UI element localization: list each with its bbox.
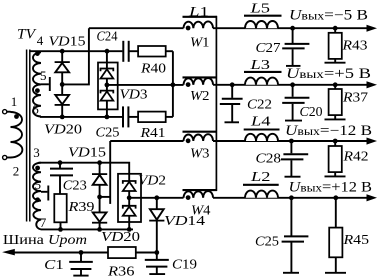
choke L1 core bar W3: [183, 131, 217, 133]
wire row3 rail: [213, 140, 368, 142]
diode VD15 lower: [92, 163, 107, 197]
capacitor C24: [123, 41, 128, 62]
primary winding coil: [11, 112, 23, 158]
tap 5B chassis bar: [47, 186, 49, 201]
node VD15b top: [97, 160, 102, 165]
node VD14 top: [154, 195, 159, 200]
node R37 top: [333, 82, 338, 87]
capacitor C25 filter: [282, 198, 309, 273]
svg-text:6: 6: [32, 102, 39, 117]
choke L1 core bar W2: [183, 76, 217, 78]
svg-text:L3: L3: [249, 58, 270, 73]
node VD15 top: [60, 49, 65, 54]
W4 polarity dot: [186, 195, 191, 200]
svg-text:Uвых=−5 В: Uвых=−5 В: [289, 7, 368, 23]
node C23 top: [58, 160, 63, 165]
resistor R40: [138, 46, 166, 57]
svg-text:C28: C28: [256, 152, 282, 167]
VD3 string wire bottom: [106, 101, 108, 117]
diode VD15: [55, 51, 70, 84]
svg-text:R45: R45: [342, 233, 369, 248]
node C28 top: [289, 139, 294, 144]
W2 polarity dot: [186, 82, 191, 87]
inductor L4 core bar: [244, 128, 280, 130]
svg-text:R43: R43: [341, 38, 367, 53]
wire W1 feed: [89, 27, 184, 29]
svg-text:VD2: VD2: [138, 174, 166, 189]
svg-text:R39: R39: [67, 200, 94, 215]
wire row4 rail: [213, 197, 368, 199]
arrow row2: [367, 81, 378, 88]
W1 polarity dot: [186, 26, 191, 31]
wire snubber vertical: [172, 51, 174, 117]
arrow row1: [367, 25, 378, 32]
svg-text:4: 4: [37, 33, 44, 48]
primary polarity dot: [14, 114, 19, 119]
svg-text:R40: R40: [140, 62, 166, 77]
capacitor C27: [282, 28, 309, 66]
wire midline B left: [100, 196, 111, 198]
VD2 zener lower: [123, 206, 136, 216]
svg-text:R41: R41: [139, 126, 165, 141]
svg-text:5: 5: [35, 177, 42, 192]
primary winding terminal 2: [3, 155, 7, 159]
svg-text:R42: R42: [342, 150, 368, 165]
capacitor C20: [282, 85, 309, 121]
node C19 top: [154, 250, 159, 255]
resistor R42: [325, 141, 346, 176]
arrow row4: [367, 194, 378, 201]
svg-text:R37: R37: [342, 91, 368, 106]
VD2 zener upper: [123, 181, 136, 191]
wire line3: [39, 163, 130, 181]
inductor L4 coil: [245, 134, 278, 141]
svg-text:C23: C23: [63, 179, 87, 194]
bus line: [13, 252, 108, 254]
secondary B polarity dot upper: [35, 166, 40, 171]
wire W3 riser: [109, 141, 111, 204]
svg-text:C24: C24: [97, 30, 118, 45]
node C22 top: [230, 82, 235, 87]
node R43 top: [333, 26, 338, 31]
svg-text:Uвых=+5 В: Uвых=+5 В: [286, 66, 371, 82]
svg-text:W3: W3: [190, 147, 210, 162]
node VD2 line7: [127, 227, 132, 232]
svg-text:W2: W2: [190, 89, 210, 104]
svg-text:R36: R36: [107, 264, 135, 278]
secondary B polarity dot lower: [35, 197, 40, 202]
node C20 top: [290, 82, 295, 87]
svg-text:2: 2: [13, 164, 20, 179]
wire terminal1: [7, 111, 11, 113]
tap 5B wire: [41, 191, 47, 193]
node C25 filter top: [289, 195, 294, 200]
svg-text:5: 5: [40, 68, 47, 83]
inductor L5 core bar: [244, 15, 282, 17]
svg-text:C22: C22: [247, 98, 272, 113]
diode VD14: [149, 198, 164, 253]
svg-text:Шина: Шина: [3, 233, 45, 248]
winding B bottom hook to line7: [36, 220, 41, 230]
svg-text:C20: C20: [300, 105, 323, 120]
svg-text:W1: W1: [190, 35, 210, 50]
diode VD20: [55, 84, 70, 117]
wire terminal2: [7, 157, 11, 159]
wire C24 to R40: [129, 50, 138, 52]
resistor R41: [138, 112, 166, 123]
svg-text:C19: C19: [172, 258, 197, 273]
choke L1 common core vertical: [215, 16, 217, 191]
node R39 line7: [58, 227, 63, 232]
svg-text:TV: TV: [17, 27, 37, 43]
VD2 string wire bottom: [128, 216, 130, 230]
wire row2 rail: [213, 84, 368, 86]
VD3 internal wire: [106, 79, 108, 91]
svg-text:1: 1: [11, 94, 18, 109]
node VD20 bottom: [60, 115, 65, 120]
svg-text:VD15: VD15: [49, 34, 86, 49]
wire line4: [30, 50, 123, 52]
tap 5A wire: [41, 83, 49, 85]
secondary A polarity dot lower: [35, 88, 40, 93]
wire line6: [40, 116, 122, 118]
VD3 zener upper: [101, 69, 114, 79]
capacitor C23: [50, 163, 73, 194]
resistor R43: [325, 28, 346, 63]
svg-text:VD3: VD3: [120, 88, 148, 103]
capacitor C1: [69, 253, 93, 276]
node C27 top: [290, 26, 295, 31]
primary winding terminal 1: [3, 110, 7, 114]
wire R41 right: [166, 116, 173, 118]
svg-text:VD20: VD20: [101, 230, 140, 245]
node VD20b line7: [97, 227, 102, 232]
inductor L5 coil: [245, 21, 278, 28]
svg-text:Uвых=+12 В: Uвых=+12 В: [289, 180, 373, 196]
wire row1 rail: [213, 27, 368, 29]
node R42 top: [333, 139, 338, 144]
inductor L3 coil: [245, 78, 278, 85]
dual diode box VD3: [98, 63, 118, 110]
diode VD20 lower: [92, 197, 107, 230]
node C1 top: [79, 250, 84, 255]
svg-text:L2: L2: [250, 170, 271, 185]
W3 polarity dot: [186, 138, 191, 143]
inductor L2 core bar: [243, 184, 279, 186]
node VD3 bottom: [105, 115, 110, 120]
tap 5A chassis bar: [49, 77, 51, 91]
wire W3 feed: [110, 140, 183, 142]
winding W1: [184, 21, 214, 28]
secondary A polarity dot upper: [35, 51, 40, 56]
resistor R39: [54, 194, 66, 222]
svg-text:C25: C25: [255, 235, 279, 250]
svg-text:VD15: VD15: [68, 145, 106, 160]
svg-text:L4: L4: [250, 114, 271, 129]
VD2 internal wire: [128, 191, 130, 206]
svg-text:C27: C27: [256, 41, 281, 56]
svg-text:C25: C25: [96, 126, 120, 141]
wire R40 right: [166, 50, 173, 52]
node VD3 mid: [105, 83, 110, 88]
node VD2 mid: [127, 195, 132, 200]
node snubber-W2: [171, 82, 176, 87]
svg-text:7: 7: [40, 215, 47, 230]
secondary winding A (4-5-6): [33, 52, 41, 116]
resistor R37: [325, 85, 346, 120]
wire line7: [41, 228, 133, 230]
node midA: [60, 82, 65, 87]
VD3 string wire top: [106, 51, 108, 68]
choke L1 core bar W1: [183, 16, 217, 18]
svg-text:W4: W4: [191, 204, 211, 219]
winding W3: [184, 134, 214, 141]
winding W4: [184, 191, 214, 198]
wire C25 to R41: [128, 116, 138, 118]
inductor L2 coil: [245, 191, 278, 198]
svg-text:C1: C1: [44, 258, 63, 273]
svg-text:L5: L5: [249, 1, 270, 16]
capacitor C25 (snubber): [123, 106, 128, 127]
secondary winding B (3-5-7): [33, 163, 41, 220]
resistor R36: [108, 247, 136, 258]
bus arrow: [2, 249, 15, 256]
svg-text:3: 3: [33, 145, 40, 160]
svg-text:Uрот: Uрот: [48, 233, 87, 248]
transformer core: [27, 50, 30, 222]
svg-text:VD20: VD20: [44, 122, 82, 137]
bus line right: [136, 252, 157, 254]
node R45 top: [333, 195, 338, 200]
winding W2: [184, 78, 214, 85]
wire W2 feed: [107, 84, 184, 86]
capacitor C19: [145, 253, 169, 275]
resistor R45: [325, 198, 346, 273]
node VD3 top: [105, 49, 110, 54]
choke L1 core bar W4: [183, 189, 217, 191]
dual diode box VD2: [118, 174, 141, 222]
node midB: [97, 195, 102, 200]
capacitor C22: [220, 85, 243, 123]
inductor L3 core bar: [244, 71, 282, 73]
svg-text:Uвых=−12 В: Uвых=−12 В: [285, 123, 372, 139]
wire midline B right (to W4): [129, 197, 183, 199]
wire midline A: [62, 28, 89, 84]
VD3 zener lower: [101, 91, 114, 101]
wire R39 bottom: [60, 222, 62, 229]
arrow row3: [367, 138, 378, 145]
capacitor C28: [281, 141, 308, 177]
